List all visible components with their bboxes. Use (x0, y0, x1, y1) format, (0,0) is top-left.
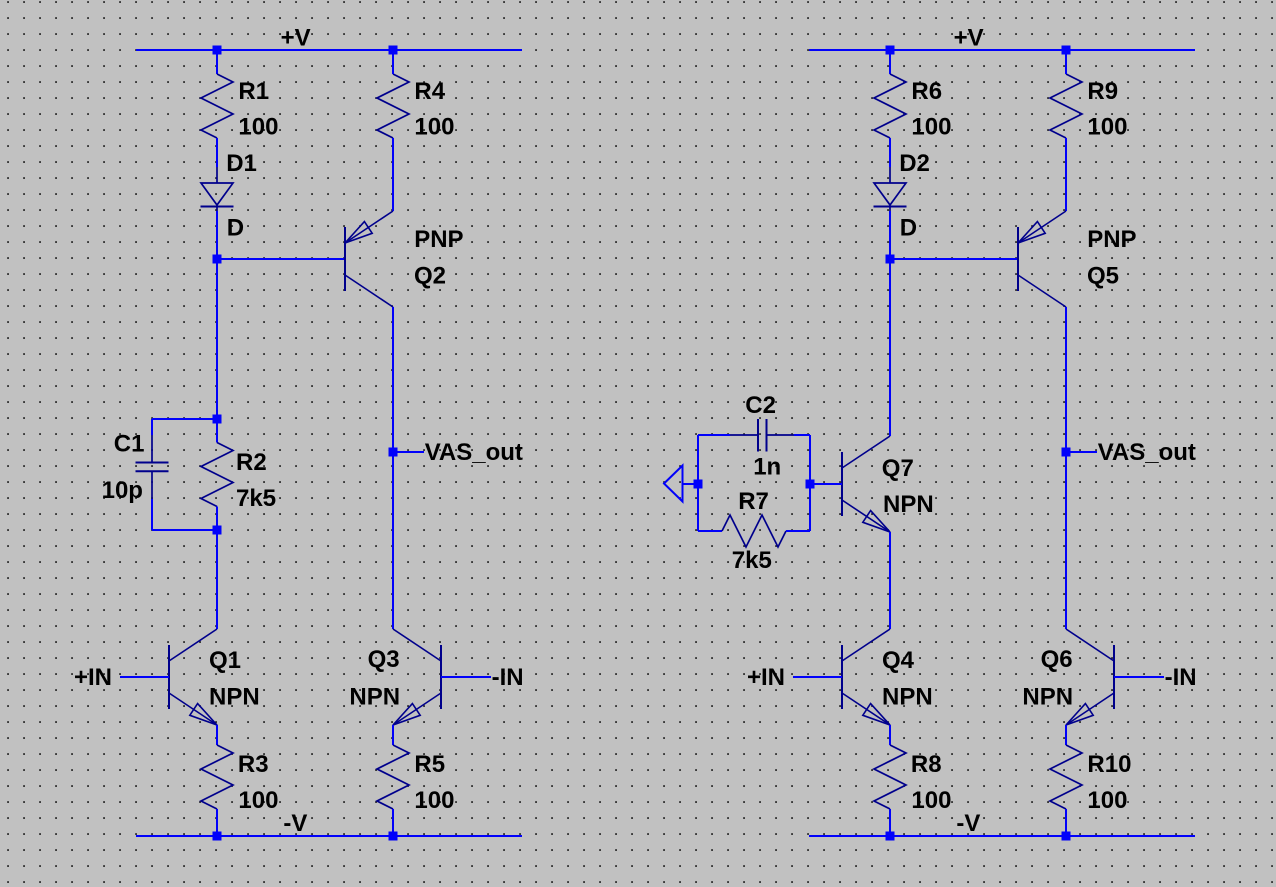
svg-text:R8: R8 (911, 751, 942, 778)
svg-text:VAS_out: VAS_out (425, 439, 523, 466)
svg-text:R5: R5 (414, 751, 445, 778)
svg-text:R4: R4 (414, 78, 445, 105)
junction +V / R6 (886, 46, 895, 55)
wire R6 top lead (889, 50, 891, 74)
wire R10 to -V (1065, 809, 1067, 836)
svg-text:C2: C2 (745, 392, 776, 419)
wire +V to R4 (392, 50, 394, 74)
svg-text:PNP: PNP (1087, 226, 1136, 253)
svg-text:100: 100 (911, 114, 951, 141)
transistor Q6 (NPN) (1113, 645, 1115, 709)
svg-text:Q3: Q3 (368, 646, 400, 673)
junction network left (694, 480, 703, 489)
svg-text:7k5: 7k5 (236, 485, 276, 512)
junction +V / R4 (389, 46, 398, 55)
wire node to R2 (216, 259, 218, 419)
svg-text:NPN: NPN (349, 684, 400, 711)
wire Q6 emitter lead (1065, 725, 1067, 745)
transistor Q3 (NPN) (440, 645, 442, 709)
resistor R1 (201, 74, 233, 138)
svg-text:-IN: -IN (1165, 664, 1197, 691)
wire network right vertical (809, 435, 811, 531)
svg-text:100: 100 (414, 787, 454, 814)
wire Q1 emitter lead (216, 725, 218, 745)
resistor R2 (201, 443, 233, 507)
junction network right (806, 480, 815, 489)
transistor Q4 (NPN) (841, 645, 843, 709)
wire VAS_out stub right (1066, 451, 1097, 453)
svg-text:100: 100 (911, 787, 951, 814)
svg-text:R7: R7 (738, 488, 769, 515)
junction -V / R5 (389, 832, 398, 841)
junction VAS_out right (1062, 448, 1071, 457)
wire C1 bottom lead (151, 499, 153, 530)
svg-text:7k5: 7k5 (732, 547, 772, 574)
svg-text:Q4: Q4 (882, 647, 915, 674)
transistor Q5 (PNP) (1017, 227, 1019, 291)
svg-text:-IN: -IN (492, 664, 524, 691)
svg-text:NPN: NPN (882, 684, 933, 711)
wire C1 bottom horizontal (152, 529, 217, 531)
wire Q4 emitter lead (889, 725, 891, 745)
svg-text:Q7: Q7 (882, 455, 914, 482)
junction Q5 base node (886, 255, 895, 264)
wire +V rail right (809, 49, 1195, 51)
junction -V / R10 (1062, 832, 1071, 841)
resistor R10 (1050, 745, 1082, 809)
wire VAS_out stub left (393, 451, 424, 453)
wire Q5 base (890, 258, 1018, 260)
svg-text:+V: +V (281, 25, 311, 52)
wire Q3 base to -IN (441, 676, 491, 678)
wire C1 top lead (151, 419, 153, 435)
resistor R6 (874, 74, 906, 138)
svg-text:D2: D2 (899, 150, 930, 177)
svg-text:10p: 10p (102, 477, 143, 504)
junction Q2 base node (213, 255, 222, 264)
wire C2 left (698, 434, 730, 436)
junction +V / R1 (213, 46, 222, 55)
wire Q7 base stub (810, 483, 842, 485)
junction R2/C1 bottom (213, 526, 222, 535)
svg-text:NPN: NPN (1022, 684, 1073, 711)
svg-text:-V: -V (283, 810, 307, 837)
wire R9 to Q5 emitter (1065, 138, 1067, 211)
wire R6 to D2 (889, 138, 891, 167)
wire +IN to Q1 base (120, 676, 169, 678)
wire R1 top lead (216, 50, 218, 74)
wire C2 right (794, 434, 810, 436)
wire +V rail left (136, 49, 522, 51)
wire D2 to node (889, 211, 891, 259)
junction R2/C1 top (213, 415, 222, 424)
wire R8 to -V (889, 809, 891, 836)
wire D1 to node (216, 211, 218, 259)
junction VAS_out left (389, 448, 398, 457)
svg-text:D: D (227, 215, 244, 242)
wire +V to R9 (1065, 50, 1067, 74)
wire network left vertical (697, 435, 699, 531)
svg-text:NPN: NPN (883, 491, 934, 518)
svg-text:Q5: Q5 (1087, 262, 1119, 289)
wire R7 left lead (698, 530, 722, 532)
wire Q7 emitter down (889, 532, 891, 629)
svg-text:Q1: Q1 (209, 647, 241, 674)
wire node to Q1 collector (216, 530, 218, 629)
wire R4 to Q2 emitter (392, 138, 394, 211)
svg-text:Q6: Q6 (1041, 646, 1073, 673)
resistor R4 (377, 74, 409, 138)
junction -V / R3 (213, 832, 222, 841)
svg-text:PNP: PNP (414, 226, 463, 253)
resistor R7 (722, 515, 786, 547)
wire Q5 collector down (1065, 307, 1067, 629)
wire Q6 base to -IN (1114, 676, 1164, 678)
svg-text:D1: D1 (226, 150, 257, 177)
diode D1 (216, 167, 218, 183)
capacitor C2 (767, 434, 795, 436)
svg-text:100: 100 (238, 787, 278, 814)
svg-text:100: 100 (1087, 114, 1127, 141)
svg-text:1n: 1n (753, 454, 781, 481)
svg-text:C1: C1 (114, 431, 145, 458)
svg-text:R2: R2 (236, 449, 267, 476)
svg-text:+IN: +IN (74, 664, 112, 691)
svg-text:R1: R1 (238, 78, 269, 105)
svg-text:R3: R3 (238, 751, 269, 778)
wire R5 to -V (392, 809, 394, 836)
wire Q2 base (217, 258, 345, 260)
transistor Q7 (NPN) (841, 452, 843, 516)
wire -V rail right (809, 835, 1195, 837)
junction +V / R9 (1062, 46, 1071, 55)
resistor R3 (201, 745, 233, 809)
svg-text:D: D (900, 215, 917, 242)
wire R2 top lead (216, 419, 218, 443)
svg-text:R6: R6 (911, 78, 942, 105)
svg-text:100: 100 (238, 114, 278, 141)
transistor Q1 (NPN) (168, 645, 170, 709)
wire R7 right lead (786, 530, 810, 532)
svg-text:R9: R9 (1087, 78, 1118, 105)
svg-text:+IN: +IN (747, 664, 785, 691)
wire node to Q7 collector (889, 259, 891, 436)
wire arrow stub (683, 483, 699, 485)
wire C1 top horizontal (152, 418, 217, 420)
wire -V rail left (136, 835, 522, 837)
svg-text:Q2: Q2 (414, 262, 446, 289)
wire +IN to Q4 base (793, 676, 842, 678)
wire R2 bottom lead (216, 507, 218, 531)
resistor R8 (874, 745, 906, 809)
wire Q2 collector down (392, 307, 394, 629)
capacitor C1 (151, 435, 153, 463)
svg-text:NPN: NPN (209, 684, 260, 711)
input arrow marker (664, 466, 683, 502)
svg-text:100: 100 (414, 114, 454, 141)
svg-text:VAS_out: VAS_out (1098, 439, 1196, 466)
svg-text:+V: +V (954, 25, 984, 52)
diode D2 (889, 167, 891, 183)
resistor R9 (1050, 74, 1082, 138)
svg-text:R10: R10 (1087, 751, 1131, 778)
wire R3 to -V (216, 809, 218, 836)
transistor Q2 (PNP) (344, 227, 346, 291)
wire R1 to D1 (216, 138, 218, 167)
svg-text:-V: -V (956, 810, 980, 837)
svg-text:100: 100 (1087, 787, 1127, 814)
junction -V / R8 (886, 832, 895, 841)
resistor R5 (377, 745, 409, 809)
wire Q3 emitter lead (392, 725, 394, 745)
